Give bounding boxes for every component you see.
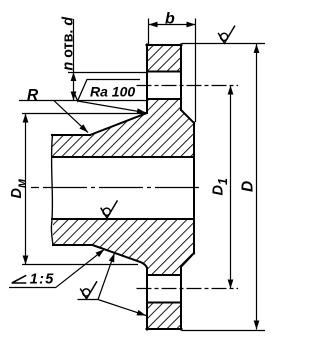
- flange/hub upper section (hatched): [52, 99, 194, 157]
- flange back plate line upper: [180, 45, 182, 111]
- pipe break line (wavy): [51, 135, 53, 246]
- flange top edge: [147, 44, 182, 46]
- finish symbol check+circle bottom left: [80, 281, 97, 299]
- svg-text:D1: D1: [211, 178, 231, 195]
- svg-text:1:5: 1:5: [30, 272, 55, 288]
- dim line D1: [230, 86, 232, 289]
- Ra 100 check symbol: [74, 80, 140, 102]
- 1:5 shelf line: [9, 287, 56, 289]
- svg-text:Ra 100: Ra 100: [90, 84, 135, 100]
- bolt hole lower: bottom edge: [147, 302, 181, 304]
- bolt hole lower: top edge: [147, 274, 181, 276]
- ext: Dm bottom: [22, 264, 138, 266]
- flange face line lower: [146, 268, 148, 329]
- leader taper 1:5: [56, 249, 105, 287]
- shelf of bottom finish symbol: [78, 299, 99, 301]
- ext: D top: [182, 43, 266, 45]
- main axis centerline: [31, 187, 200, 189]
- hub taper 1:5 lower with fillet: [92, 245, 147, 268]
- dim line d bolt hole: [73, 19, 75, 101]
- hub bottom surface: [53, 244, 92, 246]
- flange back plate line lower: [180, 267, 182, 330]
- flange bottom edge: [147, 328, 182, 330]
- flange lower rim section (hatched): [147, 303, 181, 330]
- flange/hub lower section (hatched): [52, 219, 194, 275]
- svg-text:n отв. d: n отв. d: [61, 17, 77, 71]
- flange back chamfer upper: [181, 110, 194, 123]
- hub top surface: [52, 134, 90, 136]
- leader R: [54, 101, 88, 133]
- flange boss back face: [193, 123, 195, 254]
- taper angle symbol: [12, 275, 26, 283]
- dim line Dm: [25, 114, 27, 265]
- leader Ra 100: [78, 101, 147, 113]
- leader bottom finish symbol to flange face: [98, 300, 146, 316]
- ext: b left: [148, 19, 150, 45]
- ext: b right: [195, 19, 197, 123]
- ext: Dm top: [22, 113, 146, 115]
- svg-text:b: b: [165, 11, 175, 28]
- dim line b: [149, 24, 196, 26]
- flange upper rim section (hatched): [147, 45, 181, 72]
- leader bottom finish symbol to taper: [98, 253, 115, 300]
- bolt hole axis upper: [137, 85, 239, 87]
- dim line D: [256, 44, 258, 330]
- hub taper 1:5 upper: [90, 113, 147, 135]
- svg-text:D: D: [240, 181, 257, 192]
- ext: bolt hole bottom edge / R shelf: [19, 100, 147, 102]
- bolt hole upper: bottom edge: [147, 98, 181, 100]
- finish symbol check+circle on bore: [101, 200, 118, 218]
- bore top line: [52, 156, 194, 158]
- ext: D bottom: [182, 330, 266, 332]
- bore bottom line: [52, 218, 194, 220]
- finish symbol check+circle top right: [218, 26, 235, 44]
- svg-text:R: R: [27, 87, 39, 104]
- ext: bolt hole top edge: [68, 72, 147, 74]
- flange back chamfer lower: [181, 253, 194, 267]
- bolt hole axis lower: [137, 288, 239, 290]
- bolt hole upper: top edge: [147, 71, 181, 73]
- flange face line upper: [146, 45, 148, 114]
